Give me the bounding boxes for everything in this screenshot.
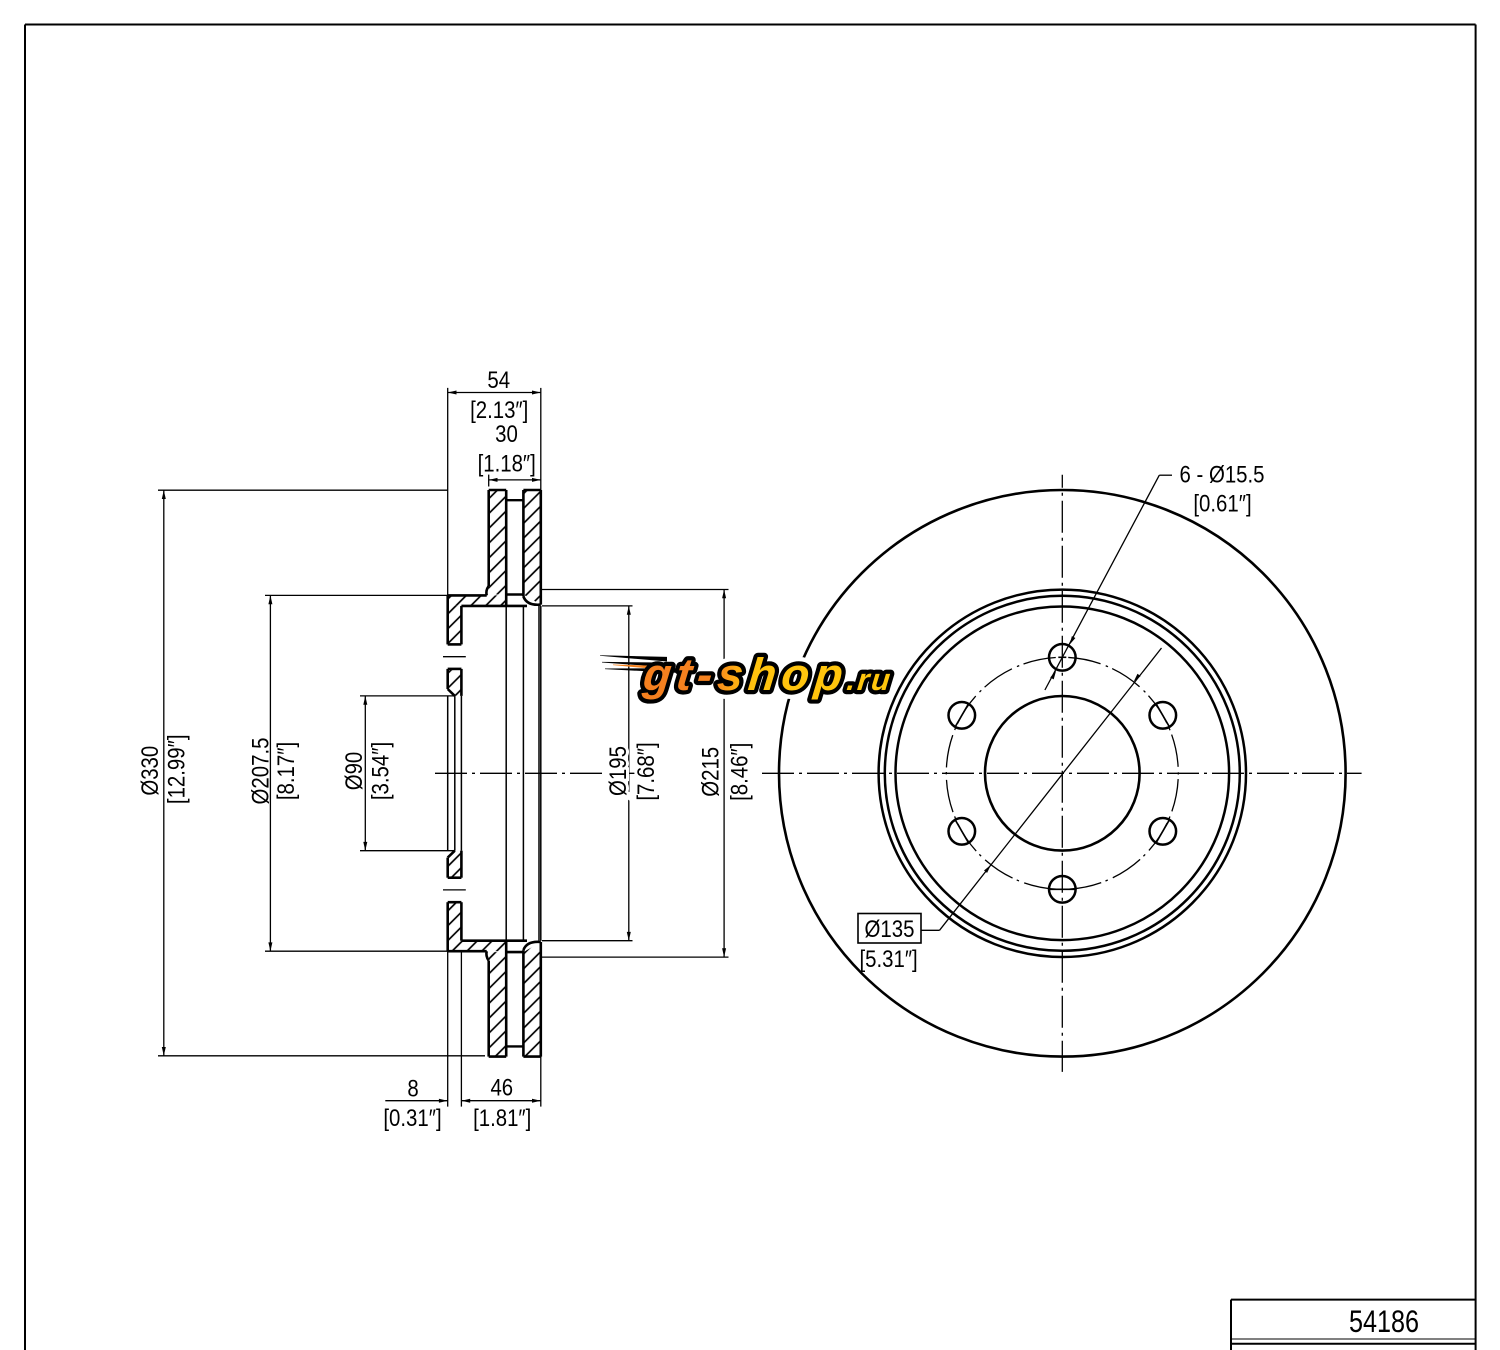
svg-text:[0.61″]: [0.61″] (1193, 490, 1251, 517)
svg-text:[2.13″]: [2.13″] (470, 397, 528, 424)
svg-text:.ru: .ru (845, 663, 894, 697)
svg-text:[1.81″]: [1.81″] (473, 1105, 531, 1132)
svg-text:[1.18″]: [1.18″] (478, 450, 536, 477)
svg-text:[12.99″]: [12.99″] (163, 735, 190, 805)
svg-text:[3.54″]: [3.54″] (367, 742, 394, 800)
svg-text:[7.68″]: [7.68″] (632, 742, 659, 800)
svg-text:6 - Ø15.5: 6 - Ø15.5 (1179, 461, 1264, 488)
svg-text:[8.17″]: [8.17″] (272, 742, 299, 800)
svg-text:8: 8 (407, 1075, 418, 1102)
svg-text:Ø207.5: Ø207.5 (247, 738, 274, 805)
svg-text:[8.46″]: [8.46″] (726, 743, 753, 801)
svg-text:54186: 54186 (1349, 1304, 1419, 1339)
svg-text:[0.31″]: [0.31″] (383, 1105, 441, 1132)
svg-text:Ø330: Ø330 (136, 746, 163, 796)
svg-text:[5.31″]: [5.31″] (859, 945, 917, 972)
svg-text:46: 46 (490, 1074, 513, 1101)
svg-text:54: 54 (487, 367, 510, 394)
svg-text:Ø195: Ø195 (604, 746, 631, 796)
svg-text:30: 30 (495, 421, 518, 448)
svg-text:Ø90: Ø90 (340, 752, 367, 791)
svg-text:Ø215: Ø215 (697, 747, 724, 797)
svg-text:Ø135: Ø135 (865, 915, 915, 942)
svg-text:gt-shop: gt-shop (640, 649, 851, 700)
